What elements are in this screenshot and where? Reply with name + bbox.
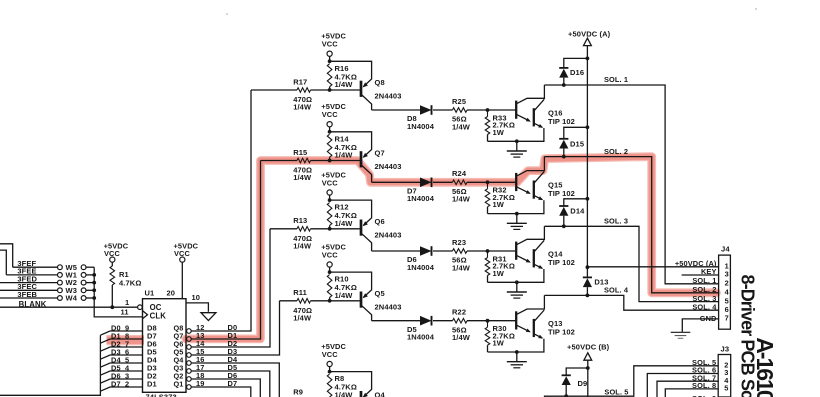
wire output Q pin 19 net D7 [187, 379, 251, 397]
svg-text:1/4W: 1/4W [335, 151, 354, 160]
label D6 (inside U1) [147, 339, 157, 348]
svg-text:1/4W: 1/4W [335, 80, 354, 89]
svg-text:SOL. 1: SOL. 1 [692, 276, 716, 285]
transistor Q16 (NPN darlington TIP 102) [488, 85, 575, 143]
label D4 (inside U1) [147, 355, 158, 364]
resistor R33 [485, 110, 515, 141]
svg-text:R23: R23 [452, 238, 466, 247]
wire input D0 (pin 9) [100, 323, 142, 335]
label R9 [293, 388, 303, 397]
power +50VDC (A) [568, 30, 611, 278]
svg-text:Q1: Q1 [174, 379, 184, 388]
svg-text:R9: R9 [293, 388, 303, 397]
svg-text:2N4403: 2N4403 [375, 302, 402, 311]
scan speck 2 [755, 8, 757, 10]
label U1 [145, 289, 155, 298]
wire SOL. 2 [544, 147, 718, 293]
svg-text:R15: R15 [293, 148, 307, 157]
wire input D6 (pin 3) [100, 371, 142, 383]
resistor R23 [452, 238, 516, 272]
connector J4 pin 5 SOL. 3 [692, 294, 728, 306]
wire output Q pin 17 net D5 [187, 363, 270, 397]
svg-text:1W: 1W [493, 128, 505, 137]
diode D5 (1N4004) [372, 316, 453, 342]
power +5VDC VCC (R10) [321, 243, 346, 275]
resistor R17 [251, 77, 360, 111]
diode D13 [583, 277, 609, 297]
svg-text:1/4W: 1/4W [452, 333, 471, 342]
svg-text:1/4W: 1/4W [293, 173, 312, 182]
svg-text:+50VDC (A): +50VDC (A) [568, 30, 611, 39]
svg-text:D9: D9 [578, 379, 588, 388]
wire 3FEF entry [0, 244, 13, 267]
connector J4 pin 2 SOL. 1 [692, 276, 728, 288]
highlighted trace core for SOL.2 signal path [107, 157, 717, 341]
connector J4 body [719, 255, 731, 329]
svg-text:J3: J3 [721, 345, 730, 354]
svg-text:D1: D1 [147, 379, 157, 388]
ground (pin 10) [201, 313, 216, 321]
diode D8 (1N4004) [372, 105, 453, 131]
transistor Q4 (partial) [330, 372, 386, 397]
svg-text:2N4403: 2N4403 [375, 162, 402, 171]
wire J4 GND [682, 319, 718, 332]
svg-text:SOL. 8: SOL. 8 [692, 381, 716, 390]
resistor R10 [327, 275, 357, 301]
wire output Q pin 15 net D3 [187, 301, 280, 358]
transistor Q8 (PNP 2N4403) [330, 61, 402, 110]
svg-text:TIP 102: TIP 102 [548, 258, 575, 267]
svg-text:Q5: Q5 [375, 289, 385, 298]
svg-text:SOL. 2: SOL. 2 [604, 147, 628, 156]
svg-text:19: 19 [196, 379, 204, 388]
transistor Q13 (NPN darlington TIP 102) [488, 295, 575, 354]
connector J4 pin 6 SOL. 4 [692, 302, 728, 314]
svg-text:1/4W: 1/4W [335, 391, 354, 397]
wire SOL. 4 [544, 286, 718, 311]
wire output Q pin 13 net D1 [187, 161, 261, 342]
svg-text:D7 2: D7 2 [111, 379, 129, 388]
wire SOL. 5 [545, 366, 719, 397]
svg-text:1/4W: 1/4W [452, 263, 471, 272]
connector J3 body [718, 355, 731, 397]
svg-text:Q7: Q7 [375, 149, 385, 158]
svg-text:1/4W: 1/4W [293, 241, 312, 250]
label D3 (inside U1) [147, 363, 157, 372]
wire 3FEE entry [0, 250, 6, 275]
svg-text:D14: D14 [570, 207, 585, 216]
svg-text:11: 11 [121, 307, 129, 316]
svg-text:R24: R24 [452, 169, 467, 178]
svg-text:1N4004: 1N4004 [407, 122, 435, 131]
svg-text:D7: D7 [228, 379, 238, 388]
junction R1/OC [110, 305, 114, 309]
resistor R11 [280, 288, 360, 322]
svg-text:SOL. 4: SOL. 4 [604, 286, 629, 295]
resistor R1 [110, 266, 141, 307]
connector J3 pin 5 SOL. 8 [665, 381, 728, 397]
svg-text:CLK: CLK [150, 311, 167, 320]
label Q1 (inside U1) [174, 379, 184, 388]
svg-text:4.7KΩ: 4.7KΩ [119, 278, 141, 287]
power +5VDC VCC (R1) [104, 241, 129, 266]
svg-text:SOL. 2: SOL. 2 [692, 285, 716, 294]
ground (Q16 emitter) [507, 141, 527, 157]
svg-text:1/4W: 1/4W [452, 122, 471, 131]
label Q7 (inside U1) [174, 331, 184, 340]
svg-text:1: 1 [125, 298, 129, 307]
svg-text:W4: W4 [66, 294, 78, 303]
label Q5 (inside U1) [174, 347, 184, 356]
svg-text:VCC: VCC [322, 350, 339, 359]
IC U1 part number [146, 393, 177, 397]
svg-text:Q4: Q4 [375, 390, 386, 397]
transistor Q7 (PNP 2N4403) [330, 132, 402, 183]
svg-text:KEY: KEY [701, 267, 717, 276]
svg-text:20: 20 [167, 289, 176, 298]
wire SOL. 3 [544, 217, 718, 302]
svg-text:2N4403: 2N4403 [375, 92, 402, 101]
transistor Q14 (NPN darlington TIP 102) [488, 226, 575, 284]
svg-text:1W: 1W [493, 200, 505, 209]
ground (Q14 emitter) [507, 282, 527, 298]
node 3FEC / jumper W3 [0, 282, 96, 295]
wire input D2 (pin 7) [100, 339, 142, 351]
resistor R8 [327, 374, 357, 397]
label Q3 (inside U1) [174, 363, 184, 372]
wire input D1 (pin 8) [100, 331, 142, 343]
svg-text:3FEB: 3FEB [17, 290, 37, 299]
svg-text:1/4W: 1/4W [293, 313, 312, 322]
connector J3 pin 3 SOL. 6 [647, 366, 728, 397]
svg-text:Q6: Q6 [375, 217, 385, 226]
svg-text:1/4W: 1/4W [452, 195, 471, 204]
ground (J4 GND) [671, 332, 691, 338]
svg-text:1/4W: 1/4W [335, 291, 354, 300]
svg-text:1N4004: 1N4004 [407, 263, 435, 272]
label D7 (inside U1) [147, 331, 157, 340]
svg-text:6: 6 [725, 305, 729, 314]
diode D6 (1N4004) [372, 246, 453, 272]
wire input D5 (pin 4) [100, 363, 142, 375]
IC U1 body [143, 299, 187, 393]
svg-text:D16: D16 [570, 68, 584, 77]
highlighted trace (halo) for SOL.2 signal path [107, 157, 717, 341]
transistor Q6 (PNP 2N4403) [330, 200, 402, 251]
label Q2 (inside U1) [174, 371, 184, 380]
wire input data bus [0, 335, 100, 395]
label D2 (inside U1) [147, 371, 157, 380]
svg-text:2N4403: 2N4403 [375, 230, 402, 239]
label Q6 (inside U1) [174, 339, 184, 348]
svg-text:D15: D15 [570, 139, 584, 148]
svg-text:A-16100: A-16100 [752, 337, 778, 397]
resistor R32 [485, 182, 515, 213]
svg-text:VCC: VCC [322, 178, 339, 187]
svg-text:TIP 102: TIP 102 [548, 117, 575, 126]
wire output Q pin 18 net D6 [187, 371, 261, 397]
wire W-select column to CLK [94, 267, 142, 317]
diode D14 [559, 199, 587, 228]
pin OC bubble [138, 303, 162, 312]
power +5VDC VCC (R8) [321, 342, 346, 374]
svg-text:VCC: VCC [322, 110, 339, 119]
svg-text:5: 5 [724, 384, 728, 393]
diode D7 (1N4004) [372, 178, 453, 204]
label pin 20 [167, 289, 176, 298]
wire input D4 (pin 5) [100, 355, 142, 367]
scan speck 1 [226, 13, 228, 15]
label D8 (inside U1) [147, 323, 157, 332]
resistor R30 [485, 321, 515, 352]
svg-text:1W: 1W [493, 269, 505, 278]
node 3FEE / jumper W1 [6, 267, 96, 280]
svg-text:R11: R11 [293, 288, 307, 297]
pin CLK wedge [143, 311, 167, 321]
resistor R12 [327, 203, 357, 229]
svg-text:SOL. 4: SOL. 4 [692, 302, 717, 311]
svg-text:1W: 1W [493, 339, 505, 348]
resistor R31 [485, 251, 515, 282]
ground (Q15 emitter) [507, 214, 527, 230]
diode D16 [559, 58, 587, 87]
svg-text:D13: D13 [594, 277, 608, 286]
label 8-Driver PCB Schematic (rotated) [737, 275, 757, 397]
svg-text:VCC: VCC [322, 250, 339, 259]
label Q8 (inside U1) [174, 323, 184, 332]
svg-text:2: 2 [725, 279, 729, 288]
svg-text:SOL. 5: SOL. 5 [604, 388, 628, 397]
svg-text:7: 7 [725, 314, 729, 323]
svg-text:1/4W: 1/4W [293, 103, 312, 112]
connector J4 pin 4 SOL. 2 [692, 285, 729, 297]
connector J4 pin 7 GND [700, 314, 729, 324]
resistor R16 [327, 64, 357, 90]
transistor Q15 (NPN darlington TIP 102) [488, 157, 575, 216]
wire input D7 (pin 2) [100, 379, 142, 391]
svg-text:+50VDC (B): +50VDC (B) [567, 343, 610, 352]
power +5VDC VCC (R12) [321, 171, 346, 203]
svg-text:R25: R25 [452, 97, 466, 106]
transistor Q5 (PNP 2N4403) [330, 272, 402, 321]
label J3 next row (clipped) [692, 394, 716, 397]
label pin 1 [125, 298, 129, 307]
node 3FEB / jumper W4 [0, 290, 96, 303]
wire +50VDC (A) feed to J4 [587, 266, 718, 268]
svg-text:J4: J4 [721, 245, 730, 254]
power +50VDC (B) [567, 343, 610, 397]
connector J3 pin 4 SOL. 7 [657, 373, 729, 397]
resistor R25 [452, 97, 516, 132]
svg-text:VCC: VCC [322, 40, 339, 49]
resistor R13 [270, 216, 360, 250]
svg-text:10: 10 [192, 293, 201, 302]
connector J4 pin 3 KEY [682, 267, 729, 279]
svg-text:BLANK: BLANK [19, 300, 47, 309]
svg-text:1N4004: 1N4004 [407, 333, 435, 342]
label J3 [721, 345, 730, 354]
svg-text:U1: U1 [145, 289, 155, 298]
node 3FEF / jumper W5 [13, 259, 95, 272]
resistor R14 [327, 134, 357, 160]
svg-text:SOL. 3: SOL. 3 [604, 217, 628, 226]
label pin 11 [121, 307, 129, 316]
power +5VDC VCC (R14) [321, 102, 346, 134]
svg-text:R13: R13 [293, 216, 307, 225]
svg-text:R17: R17 [293, 77, 307, 86]
svg-text:TIP 102: TIP 102 [548, 328, 575, 337]
wire input D3 (pin 6) [100, 347, 142, 359]
resistor R24 [452, 169, 516, 204]
label D5 (inside U1) [147, 347, 157, 356]
wire pin 10 [186, 293, 208, 312]
wire output Q pin 14 net D2 [187, 229, 270, 350]
label A-16100 (rotated) [752, 337, 778, 397]
wire output Q pin 16 net D4 [187, 355, 280, 397]
svg-text:Q8: Q8 [375, 78, 385, 87]
svg-text:R22: R22 [452, 308, 466, 317]
resistor R15 [261, 148, 360, 182]
node BLANK [0, 300, 138, 309]
resistor R22 [452, 308, 516, 343]
power +5VDC VCC (U1 pin 20) [174, 241, 199, 298]
svg-text:1/4W: 1/4W [335, 219, 354, 228]
svg-text:SOL. 1: SOL. 1 [604, 75, 628, 84]
ground (Q13 emitter) [507, 352, 527, 368]
svg-text:1N4004: 1N4004 [407, 194, 435, 203]
label D1 (inside U1) [147, 379, 157, 388]
svg-text:TIP 102: TIP 102 [548, 189, 575, 198]
svg-text:3: 3 [725, 270, 729, 279]
wire output Q pin 12 net D0 [187, 90, 251, 333]
diode D15 [559, 127, 587, 158]
label J4 [721, 245, 730, 254]
node 3FED / jumper W2 [0, 274, 96, 287]
connector J3 pin 2 SOL. 5 [692, 358, 728, 370]
label Q4 (inside U1) [174, 355, 185, 364]
diode D9 [562, 368, 588, 396]
wire SOL. 1 [544, 75, 718, 284]
power +5VDC VCC (R16) [321, 32, 346, 63]
connector J4 pin 1 +50VDC (A) [675, 259, 729, 271]
svg-text:74LS373: 74LS373 [146, 393, 177, 397]
